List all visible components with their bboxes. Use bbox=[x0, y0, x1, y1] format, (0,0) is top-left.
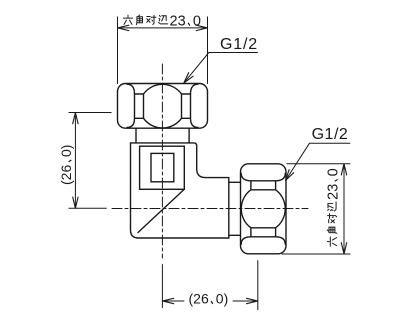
svg-text:0: 0 bbox=[325, 168, 341, 176]
svg-text:0: 0 bbox=[193, 13, 201, 29]
bottom dim extension line right bbox=[257, 261, 259, 310]
right nut middle facet arcs bbox=[241, 190, 251, 228]
top leader arrowhead bbox=[184, 73, 193, 83]
top dim text 六角対辺23.0 bbox=[123, 13, 201, 29]
right leader arrowhead bbox=[286, 170, 294, 181]
top dim arrow left bbox=[118, 25, 129, 30]
svg-text:23: 23 bbox=[170, 13, 186, 29]
body diagonal line bbox=[138, 189, 184, 232]
left dim arrow top bbox=[73, 113, 78, 124]
left dim extension line bottom (with centerline) bbox=[69, 207, 106, 209]
nut left channel bbox=[135, 94, 144, 118]
vertical centerline solid extension to bottom dimension bbox=[161, 265, 163, 308]
bottom dim arrow right bbox=[247, 298, 258, 303]
right dim extension line bottom bbox=[282, 253, 350, 255]
svg-text:G1/2: G1/2 bbox=[312, 126, 349, 143]
svg-text:23: 23 bbox=[325, 184, 341, 200]
top dim extension line left bbox=[117, 17, 119, 84]
nut middle facet arcs bbox=[144, 84, 182, 94]
right dim text 六角対辺23.0 rotated bbox=[325, 168, 341, 246]
neck below top nut bbox=[136, 128, 189, 143]
svg-text:G1/2: G1/2 bbox=[220, 36, 258, 53]
left dim arrow bottom bbox=[73, 197, 78, 208]
nut left facet flare arcs bbox=[127, 84, 135, 94]
horizontal centerline of right port bbox=[112, 208, 308, 210]
svg-text:0): 0) bbox=[58, 145, 74, 157]
bottom dim line right segment bbox=[233, 300, 258, 302]
top dim extension line right bbox=[207, 17, 209, 84]
nut right facet flare arcs bbox=[191, 84, 199, 94]
right dim extension line top bbox=[287, 163, 350, 165]
left dim extension line top bbox=[69, 112, 111, 114]
body boss square bbox=[140, 146, 185, 189]
right nut bottom channel bbox=[251, 228, 276, 237]
neck of right port bbox=[229, 182, 241, 235]
right nut bottom facet flare arcs bbox=[241, 237, 251, 245]
svg-text:0): 0) bbox=[216, 291, 228, 307]
right dim arrow bottom bbox=[341, 243, 346, 254]
left dim line bbox=[74, 113, 76, 209]
left dim text (26.0) rotated bbox=[58, 145, 74, 185]
right nut top channel bbox=[251, 181, 276, 190]
svg-text:(26: (26 bbox=[189, 291, 209, 307]
vertical centerline of top port bbox=[161, 64, 163, 258]
right dim arrow top bbox=[341, 164, 346, 175]
body inner rectangle bbox=[151, 153, 174, 181]
top leader underline bbox=[184, 53, 258, 83]
svg-text:(26: (26 bbox=[58, 165, 74, 185]
right leader underline bbox=[286, 143, 350, 180]
top dim line bbox=[118, 27, 208, 29]
nut outline bbox=[118, 84, 208, 129]
nut right channel bbox=[182, 94, 191, 118]
top dim arrow right bbox=[196, 25, 207, 30]
bottom dim line left segment bbox=[162, 300, 184, 302]
right dim line bbox=[343, 164, 345, 254]
bottom dim arrow left bbox=[162, 298, 173, 303]
elbow body outline bbox=[131, 143, 229, 238]
right hex nut (horizontal port) bbox=[241, 164, 287, 254]
right nut top facet flare arcs bbox=[241, 173, 251, 181]
